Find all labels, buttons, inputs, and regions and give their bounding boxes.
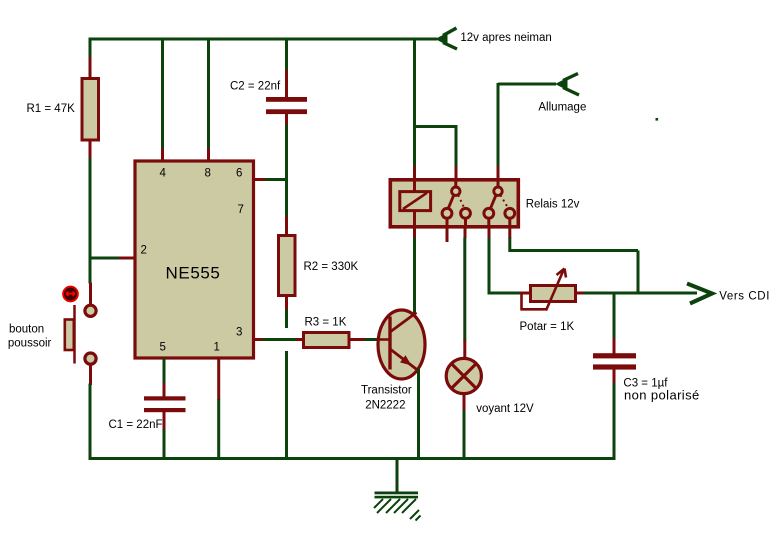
svg-text:7: 7	[238, 204, 244, 216]
wire bottom ground rail	[89, 457, 615, 460]
transistor Q1	[378, 310, 425, 379]
wire C1 to ground rail	[163, 430, 166, 461]
svg-text:6: 6	[236, 168, 242, 180]
wire pin2 branch	[89, 257, 121, 260]
pin 6 stub of U1	[254, 178, 267, 181]
wire relay to lamp	[463, 238, 466, 342]
relay RL1 switch 1 right contact	[461, 208, 471, 218]
wire relay coil top drop	[413, 38, 416, 168]
svg-text:non polarisé: non polarisé	[624, 387, 700, 402]
relay RL1 cdi pin	[508, 226, 511, 239]
relay RL1 switch 2 arm	[490, 195, 496, 209]
label C2 value	[230, 81, 281, 93]
svg-text:1: 1	[214, 342, 220, 354]
relay RL1 switch 2 left contact	[484, 208, 494, 218]
wire left rail bottom segment	[89, 384, 92, 461]
wire pin1 to ground rail	[217, 399, 220, 460]
relay RL1 switch 1 pivot	[452, 181, 460, 195]
wire R2 ground drop	[285, 351, 288, 460]
svg-text:poussoir: poussoir	[8, 337, 52, 349]
svg-text:bouton: bouton	[9, 324, 44, 336]
svg-text:Potar = 1K: Potar = 1K	[520, 321, 575, 333]
label bouton poussoir	[8, 324, 52, 350]
svg-text:8: 8	[205, 168, 211, 180]
capacitor C3	[593, 338, 636, 384]
pin 3 stub of U1	[254, 338, 264, 341]
wire cdi line	[584, 292, 698, 295]
svg-text:R2 = 330K: R2 = 330K	[304, 261, 359, 273]
relay RL1 coil	[400, 181, 431, 226]
svg-text:3: 3	[236, 327, 242, 339]
pin 4 stub of U1	[161, 148, 164, 161]
relay RL1 switch 2 pivot	[494, 181, 502, 195]
svg-text:R3 = 1K: R3 = 1K	[305, 317, 347, 329]
svg-text:Allumage: Allumage	[538, 102, 586, 114]
relay RL1 switch 1 dotted link	[458, 195, 464, 208]
wire C2 top drop	[285, 38, 288, 72]
relay RL1 coil bottom pin	[413, 226, 416, 239]
relay RL1 body	[390, 180, 518, 227]
label 12v apres neiman	[460, 32, 551, 44]
wire left rail top segment	[89, 38, 92, 59]
svg-text:2: 2	[141, 245, 147, 257]
svg-text:voyant 12V: voyant 12V	[476, 403, 534, 415]
pin 2 stub of U1	[119, 257, 134, 260]
stray node dot	[656, 118, 659, 121]
wire pin8 drop	[207, 38, 210, 150]
U1 pin number 6	[236, 168, 242, 180]
label Potar value	[520, 321, 575, 333]
wire transistor emitter to ground rail	[417, 369, 420, 460]
svg-text:Transistor: Transistor	[361, 385, 412, 397]
wire pin4 drop	[161, 38, 164, 150]
push button upper terminal wire	[89, 283, 92, 306]
push button lower terminal wire	[89, 364, 92, 385]
capacitor C1	[144, 383, 186, 431]
U1 pin number 5	[160, 342, 166, 354]
svg-text:12v apres neiman: 12v apres neiman	[460, 32, 551, 44]
label Transistor 2N2222	[361, 385, 412, 412]
svg-text:R1 = 47K: R1 = 47K	[27, 103, 76, 115]
label Vers CDI	[719, 291, 770, 303]
relay RL1 switch 1 arm	[448, 195, 454, 209]
svg-text:C1 = 22nF: C1 = 22nF	[109, 419, 163, 431]
relay RL1 switch2 top pin	[497, 167, 500, 180]
label Allumage	[538, 102, 586, 114]
wire pin6 link	[265, 178, 288, 181]
push button upper terminal circle	[85, 305, 96, 316]
push button lower terminal circle	[85, 353, 96, 364]
push button actuator bar	[73, 305, 76, 364]
svg-text:Vers CDI: Vers CDI	[719, 291, 770, 303]
resistor R1	[82, 57, 99, 160]
wire relay common top drop	[455, 125, 458, 168]
label Relais 12v	[526, 199, 580, 211]
svg-text:C2 = 22nf: C2 = 22nf	[230, 81, 281, 93]
pin 1 stub of U1	[217, 358, 220, 400]
U1 pin number 1	[214, 342, 220, 354]
svg-text:2N2222: 2N2222	[365, 400, 405, 412]
label R1 value	[27, 103, 76, 115]
push button body rectangle	[65, 320, 74, 351]
relay RL1 switch 2 dotted link	[500, 195, 508, 208]
svg-text:NE555: NE555	[166, 263, 221, 282]
pin 8 stub of U1	[207, 148, 210, 161]
U1 pin number 3	[236, 327, 242, 339]
lamp voyant top lead	[463, 340, 466, 358]
svg-text:4: 4	[160, 168, 167, 180]
label C1 value	[109, 419, 163, 431]
relay RL1 unconnected pin stub	[446, 226, 449, 242]
relay RL1 switch 2 right contact	[505, 208, 515, 218]
arrow Vers CDI	[687, 284, 712, 304]
wire top supply rail	[89, 38, 438, 41]
resistor R2	[279, 216, 296, 311]
wire C3 top drop	[613, 292, 616, 340]
U1 pin number 2	[141, 245, 147, 257]
ground stub wire	[396, 457, 399, 492]
relay RL1 coil top pin	[413, 167, 416, 180]
relay RL1 lamp pin	[464, 226, 467, 239]
wire Allumage drop	[497, 83, 500, 168]
label voyant 12V	[476, 403, 534, 415]
lamp voyant 12V	[446, 358, 481, 393]
label C3 value	[623, 378, 699, 403]
potentiometer RV1	[520, 269, 586, 311]
pin 5 wire below U1	[163, 358, 166, 384]
label R3 value	[305, 317, 347, 329]
wire C2 to pin6 and R2	[285, 125, 288, 218]
wire relay top branch horizontal	[413, 125, 456, 128]
wire lamp to ground rail	[463, 411, 466, 461]
wire R3 to transistor base	[365, 338, 379, 341]
wire C3 to ground rail	[613, 383, 616, 460]
U1 pin number 7	[238, 204, 244, 216]
lamp voyant bottom lead	[463, 394, 466, 412]
wire left rail middle segment	[89, 158, 92, 284]
wire R2 bottom upper piece	[285, 310, 288, 329]
IC U1 NE555 body	[135, 161, 254, 358]
wire pin3 to R3	[263, 338, 298, 341]
ground symbol	[374, 492, 421, 521]
U1 pin number 8	[205, 168, 211, 180]
U1 pin number 4	[160, 168, 167, 180]
label R2 value	[304, 261, 359, 273]
U1 label NE555	[166, 263, 221, 282]
power arrow Allumage	[498, 74, 579, 96]
relay RL1 switch1 top pin	[455, 167, 458, 180]
wire relay coil to transistor collector	[413, 238, 416, 314]
power arrow 12v apres neiman	[435, 28, 457, 49]
resistor R3	[296, 333, 367, 348]
svg-text:Relais 12v: Relais 12v	[526, 199, 580, 211]
relay RL1 contact bottom pins inside box	[447, 218, 510, 227]
wire relay to potar left	[488, 238, 522, 295]
relay RL1 potar pin	[488, 226, 491, 239]
capacitor C2	[266, 70, 307, 126]
wire relay to cdi node	[510, 238, 638, 295]
push button red actuator cap	[63, 287, 78, 302]
relay RL1 switch 1 left contact	[442, 208, 452, 218]
svg-text:5: 5	[160, 342, 166, 354]
